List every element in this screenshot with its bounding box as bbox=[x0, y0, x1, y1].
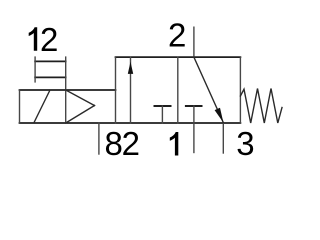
port 12 bracket bottom rung bbox=[35, 76, 66, 78]
solenoid box left edge bbox=[19, 90, 21, 123]
valve body right edge bbox=[239, 57, 241, 123]
pilot triangle lower side bbox=[66, 106, 95, 124]
flow path diagonal 2 to 3 (right square) bbox=[194, 57, 223, 122]
port 12 bracket left tick bbox=[34, 57, 36, 82]
port 3 stub bbox=[222, 123, 224, 153]
pilot line 12 vertical + triangle base bbox=[65, 57, 67, 123]
label 12 digit 1 bbox=[29, 27, 38, 51]
port 2 stub bbox=[193, 27, 195, 57]
svg-text:2: 2 bbox=[168, 16, 186, 53]
label 1 bbox=[170, 132, 179, 156]
solenoid coil diagonal stroke bbox=[34, 90, 50, 123]
arrowhead up (flow path 1-2) bbox=[128, 62, 133, 74]
arrowhead down-right (flow path 2-3) bbox=[215, 108, 224, 123]
valve body left edge bbox=[115, 57, 117, 123]
return spring zigzag bbox=[240, 89, 282, 124]
blocked port T stem (left square) bbox=[161, 106, 163, 123]
valve body top edge bbox=[116, 56, 241, 58]
flow path line 1 to 2 (left square) bbox=[130, 57, 132, 123]
pilot triangle upper side bbox=[66, 90, 95, 106]
svg-text:3: 3 bbox=[236, 125, 254, 162]
port 82 stub bbox=[98, 123, 100, 154]
svg-text:2: 2 bbox=[122, 125, 140, 162]
port 12 bracket top rung bbox=[35, 60, 66, 62]
svg-text:8: 8 bbox=[105, 125, 123, 162]
svg-text:2: 2 bbox=[40, 21, 58, 58]
blocked port T crossbar (left square) bbox=[155, 105, 171, 107]
solenoid box top edge bbox=[20, 89, 116, 91]
blocked port T crossbar (right square) bbox=[186, 105, 202, 107]
blocked port T stem + port 1 stub bbox=[193, 106, 195, 153]
divider between position squares bbox=[177, 57, 179, 123]
solenoid + valve bottom edge bbox=[20, 122, 241, 124]
